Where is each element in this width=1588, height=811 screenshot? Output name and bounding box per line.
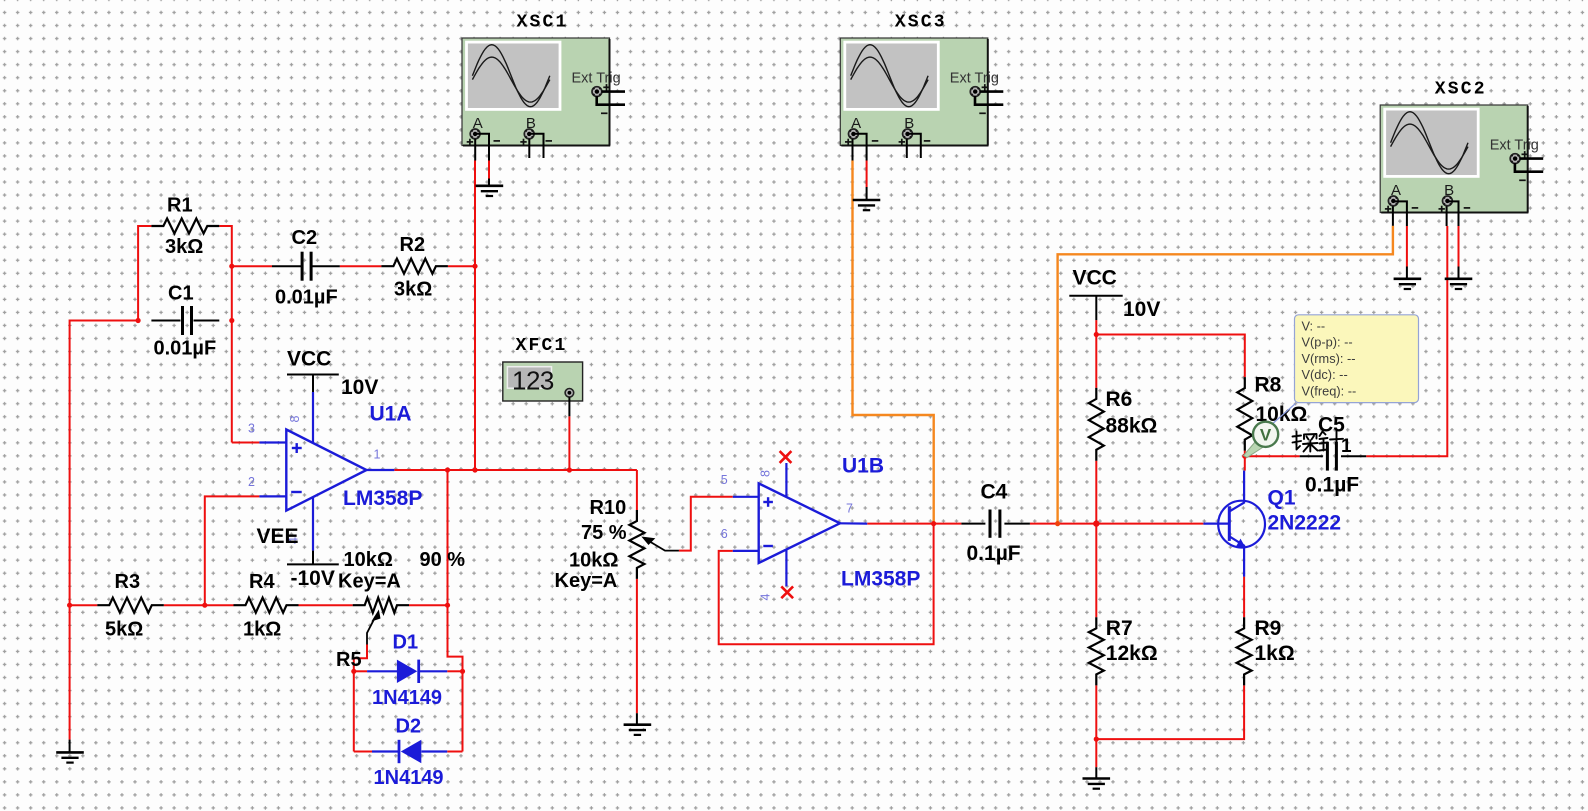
XSC3 channel B leads (907, 134, 921, 158)
wire diode D1 right lead red (447, 670, 462, 672)
svg-text:8: 8 (758, 470, 772, 477)
wire R8 bottom to collector node (1244, 451, 1246, 457)
oscilloscope XSC1 terminal A (470, 129, 480, 139)
XSC3 channel A lead black (852, 139, 854, 161)
svg-text:6: 6 (721, 527, 728, 541)
svg-text:1N4149: 1N4149 (374, 767, 444, 789)
XSC3 channel A minus lead (853, 134, 867, 161)
wire U1A pin2 input (205, 496, 260, 605)
op-amp U1B labels (841, 455, 920, 591)
capacitor C2 (272, 227, 340, 309)
svg-text:XSC1: XSC1 (516, 13, 568, 33)
svg-text:R6: R6 (1106, 388, 1133, 411)
oscilloscope XSC1 terminal B (524, 129, 534, 139)
wire R7 bottom to bottom rail node (1095, 685, 1097, 739)
svg-text:VEE: VEE (257, 525, 299, 548)
svg-text:4: 4 (758, 593, 772, 600)
svg-text:D1: D1 (393, 632, 419, 654)
svg-text:V(freq): --: V(freq): -- (1302, 383, 1357, 398)
svg-text:VCC: VCC (287, 348, 331, 371)
wire C1 node to lower-left rail (70, 321, 139, 606)
svg-text:R8: R8 (1255, 374, 1282, 397)
oscilloscope XSC2 terminal B (1443, 196, 1453, 206)
wire diode loop left rail (353, 671, 355, 751)
wire VCC node stub (1095, 320, 1097, 334)
op-amp U1A pin numbers (248, 415, 381, 544)
svg-text:5: 5 (721, 473, 728, 487)
svg-text:Ext Trig: Ext Trig (1490, 138, 1539, 154)
svg-text:3kΩ: 3kΩ (394, 279, 432, 301)
svg-text:10kΩ: 10kΩ (569, 550, 618, 572)
svg-text:XSC3: XSC3 (895, 13, 947, 33)
wire XFC1 drop (568, 416, 570, 470)
junction XSC1 column at output row (472, 467, 477, 472)
svg-text:0.1µF: 0.1µF (1305, 474, 1359, 497)
oscilloscope XSC2 terminal Ext Trig (1510, 154, 1543, 172)
svg-text:XFC1: XFC1 (515, 336, 567, 356)
svg-text:Q1: Q1 (1268, 487, 1296, 510)
svg-text:LM358P: LM358P (343, 487, 422, 510)
wire feedback from output to R5 node (447, 470, 449, 605)
wire XSC2 B minus red segment (1458, 226, 1460, 267)
transistor Q1 2N2222 (1203, 471, 1341, 577)
svg-text:7: 7 (846, 502, 853, 516)
wire VCC rail to R8 top (1096, 335, 1245, 378)
wire R2 right to XSC1 column (448, 265, 475, 267)
wire R3 to R4 (164, 604, 234, 606)
svg-text:C4: C4 (981, 481, 1008, 504)
wire R10 top from output row (636, 470, 638, 510)
potentiometer R5 (336, 549, 465, 671)
wire R3 left lead (70, 604, 98, 606)
wire U1A output row (394, 469, 637, 471)
svg-text:LM358P: LM358P (841, 568, 920, 591)
svg-text:R10: R10 (590, 497, 627, 519)
svg-text:5kΩ: 5kΩ (105, 619, 143, 641)
XSC2 channel A lead black (1392, 206, 1394, 226)
wire R4 to R5 (299, 604, 353, 606)
wire XSC1 A minus red segment (488, 161, 490, 179)
op-amp U1A LM358P (259, 392, 394, 551)
op-amp U1A labels (343, 403, 422, 511)
svg-text:Ext Trig: Ext Trig (572, 71, 621, 87)
svg-text:R1: R1 (167, 195, 193, 217)
wire C2 to R2 (340, 265, 382, 267)
wire diode D2 row red leads (354, 751, 372, 753)
svg-text:1kΩ: 1kΩ (243, 619, 281, 641)
capacitor C5 (1300, 414, 1367, 497)
oscilloscope XSC3 channel letters and marks (845, 71, 999, 146)
VEE power symbol U1A (257, 525, 339, 590)
wire XSC2 channel B red (1446, 206, 1448, 226)
wire bottom rail to R9 (1096, 685, 1244, 739)
junction C2 left node (229, 264, 234, 269)
XSC1 channel A minus lead (475, 134, 489, 161)
svg-text:1: 1 (374, 448, 381, 462)
junction R6-R7 column at output row (1093, 520, 1099, 526)
resistor R6 (1089, 388, 1158, 461)
wire bottom rail node to ground (1095, 739, 1097, 767)
XSC1 channel A lead black (474, 139, 476, 161)
resistor R7 (1089, 617, 1158, 685)
oscilloscope XSC2 terminal A (1388, 196, 1398, 206)
svg-text:1: 1 (1341, 436, 1352, 457)
svg-text:75 %: 75 % (581, 522, 627, 544)
oscilloscope XSC1 channel letters and marks (467, 71, 621, 146)
junction collector node (1242, 454, 1247, 459)
capacitor C1 (151, 283, 219, 360)
svg-text:90 %: 90 % (420, 549, 466, 571)
svg-text:Key=A: Key=A (555, 570, 618, 592)
resistor R3 (97, 571, 164, 641)
svg-text:U1A: U1A (370, 403, 412, 426)
svg-text:C1: C1 (168, 283, 194, 305)
wire diode loop right rail to R5 node (448, 605, 463, 751)
XFC1 terminal (565, 389, 574, 417)
svg-text:123: 123 (512, 366, 554, 396)
VCC power symbol right (1069, 267, 1160, 322)
junction C1 right node (229, 318, 234, 323)
wire XSC3 A minus red segment (866, 161, 868, 188)
wire U1B output row to C4 (867, 523, 961, 525)
svg-text:V(rms): --: V(rms): -- (1302, 351, 1356, 366)
wire Q1 emitter down to R9 (1243, 577, 1245, 618)
svg-text:R3: R3 (115, 571, 141, 593)
svg-text:R7: R7 (1106, 617, 1133, 640)
XSC2 channel A minus lead (1393, 201, 1407, 226)
ground bottom right (1083, 767, 1111, 789)
oscilloscope XSC2 body (1380, 105, 1528, 213)
svg-text:10V: 10V (1123, 298, 1160, 321)
junction orange tap at output row (1055, 521, 1060, 526)
wire orange XSC2 channel A to C4 output node (1058, 226, 1393, 524)
junction bottom rail node (1094, 737, 1099, 742)
resistor R2 (381, 234, 448, 301)
wire R10 bottom to ground (636, 579, 638, 713)
ground below XSC3 (853, 199, 881, 202)
op-amp U1B no-connect X marks (780, 451, 794, 598)
svg-text:V: --: V: -- (1302, 319, 1326, 334)
XSC1 channel B leads (529, 134, 543, 158)
op-amp U1B LM358P (733, 463, 867, 586)
probe readout box (1295, 315, 1419, 403)
wire R5 right lead to feedback node (409, 604, 448, 606)
wire VCC node to R6 (1095, 335, 1097, 388)
svg-text:R2: R2 (400, 234, 426, 256)
oscilloscope XSC1 body (462, 38, 610, 146)
wire R5 wiper down to diode loop (354, 645, 367, 672)
svg-text:1kΩ: 1kΩ (1255, 642, 1295, 665)
wire C2 left lead (232, 265, 272, 267)
junction VCC node (1094, 332, 1099, 337)
svg-text:1N4149: 1N4149 (372, 687, 442, 709)
ground bottom left (56, 740, 84, 763)
wire collector node down to Q1 collector (1244, 456, 1246, 470)
svg-text:V(p-p): --: V(p-p): -- (1302, 335, 1353, 350)
diode D2 1N4149 (372, 716, 447, 790)
probe label text (1293, 431, 1353, 457)
svg-text:Key=A: Key=A (338, 571, 401, 593)
oscilloscope XSC3 terminal A (849, 129, 859, 139)
svg-text:8: 8 (288, 415, 302, 422)
ground below XSC2 channel B (1445, 277, 1473, 280)
wire diode D1 left lead red (354, 670, 367, 672)
svg-text:Ext Trig: Ext Trig (950, 71, 999, 87)
svg-text:12kΩ: 12kΩ (1106, 642, 1158, 665)
resistor R8 (1237, 374, 1307, 451)
resistor R4 (234, 571, 299, 641)
diode D1 1N4149 (367, 632, 447, 710)
wire orange XSC3 channel A to U1B output node (853, 161, 934, 524)
resistor R1 (151, 195, 219, 259)
wire R6 bottom through main row to R7 (1095, 461, 1097, 618)
junction diode loop right (460, 669, 465, 674)
oscilloscope XSC3 terminal B (903, 129, 913, 139)
ground below XSC1 (476, 185, 504, 188)
capacitor C4 (961, 481, 1030, 566)
junction U1B feedback at output row (931, 521, 936, 526)
svg-text:V(dc): --: V(dc): -- (1302, 367, 1348, 382)
svg-text:0.01µF: 0.01µF (154, 338, 217, 360)
svg-text:U1B: U1B (842, 455, 884, 478)
junction R3 left node (67, 603, 72, 608)
oscilloscope XSC1 terminal Ext Trig (592, 87, 625, 105)
svg-text:88kΩ: 88kΩ (1106, 415, 1158, 438)
svg-text:R9: R9 (1255, 617, 1282, 640)
junction diode loop left (351, 669, 356, 674)
svg-text:10V: 10V (341, 376, 378, 399)
VCC power symbol U1A (287, 348, 378, 400)
svg-text:0.01µF: 0.01µF (275, 287, 338, 309)
svg-text:R5: R5 (336, 649, 362, 671)
frequency counter XFC1 (503, 362, 583, 401)
oscilloscope XSC3 body (840, 38, 988, 146)
junction feedback at output row (445, 467, 450, 472)
ground below R10 (624, 713, 652, 735)
junction R3-R4 node (202, 603, 207, 608)
svg-text:V: V (1260, 426, 1272, 445)
wire R1 right / C2 / C1 / pin3 vertical bus (219, 226, 232, 443)
svg-text:-10V: -10V (291, 567, 335, 590)
op-amp U1B pin numbers (721, 470, 853, 601)
junction R5 right node (445, 603, 450, 608)
wire C5 right to XSC2 B column (1366, 226, 1447, 456)
svg-text:R4: R4 (249, 571, 275, 593)
wire collector node to C5 (1245, 455, 1300, 457)
svg-text:VCC: VCC (1073, 267, 1117, 290)
svg-text:XSC2: XSC2 (1435, 80, 1487, 100)
wire R10 wiper to U1B pin5 (679, 497, 733, 551)
XSC2 channel B minus lead (1447, 201, 1459, 226)
svg-text:3kΩ: 3kΩ (165, 236, 203, 258)
potentiometer R10 (555, 497, 679, 592)
svg-text:C2: C2 (292, 227, 318, 249)
oscilloscope XSC2 channel letters and marks (1385, 138, 1539, 213)
wire C4 right to Q1 base (1030, 523, 1204, 525)
ground below XSC2 channel A (1394, 277, 1422, 280)
svg-text:D2: D2 (396, 716, 422, 738)
svg-text:10kΩ: 10kΩ (344, 549, 393, 571)
wire left rail down to ground (69, 605, 71, 739)
svg-text:2: 2 (248, 475, 255, 489)
junction XFC1 at output row (567, 467, 572, 472)
wire XSC1 channel A column (474, 161, 476, 471)
wire op-amp U1A pin3 input (232, 442, 260, 444)
junction R2 right node (472, 264, 477, 269)
measurement probe 1 (1244, 404, 1296, 458)
resistor R9 (1237, 617, 1295, 685)
oscilloscope XSC3 terminal Ext Trig (970, 87, 1003, 105)
wire R1 left vertical to C1 node (138, 226, 151, 321)
junction C1 left node (136, 318, 141, 323)
wire U1B pin6 feedback loop (719, 524, 934, 645)
wire XSC2 A minus red segment (1406, 226, 1408, 267)
svg-text:2N2222: 2N2222 (1268, 512, 1342, 535)
svg-text:3: 3 (248, 422, 255, 436)
XSC2 channel B lead black (1446, 206, 1448, 226)
svg-text:0.1µF: 0.1µF (967, 542, 1021, 565)
